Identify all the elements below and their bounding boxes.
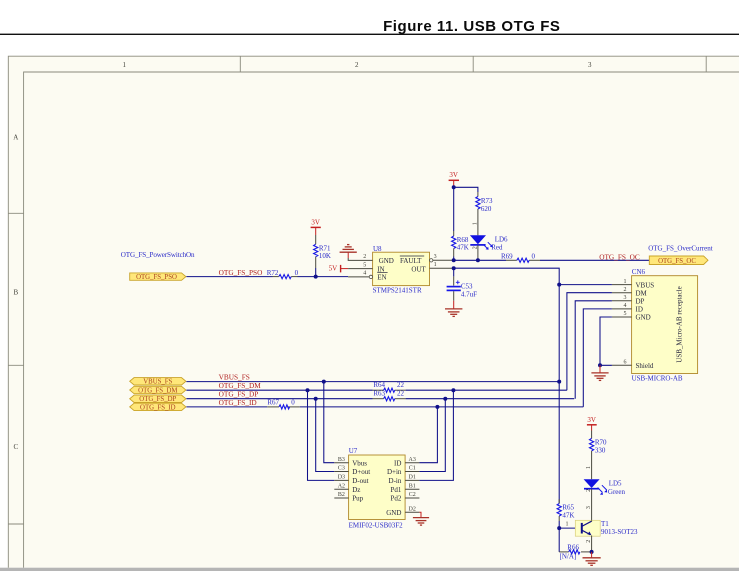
- wire VBUS_FS: [186, 381, 559, 383]
- wire VBUS to CN6 pin1: [559, 284, 612, 286]
- U8 pin 5 IN wire and 5V power: [329, 262, 373, 272]
- svg-text:2: 2: [363, 254, 366, 260]
- junction VBUS/B3: [322, 380, 326, 384]
- svg-text:4: 4: [624, 303, 627, 309]
- svg-text:VBUS_FS: VBUS_FS: [219, 372, 250, 381]
- U8 pin 2 GND wire and ground: [340, 245, 373, 261]
- svg-text:C53: C53: [461, 283, 473, 291]
- net label OTG_FS_DP: [219, 390, 259, 399]
- junction DM/D3: [306, 388, 310, 392]
- svg-text:U7: U7: [349, 447, 358, 455]
- svg-text:2: 2: [355, 61, 359, 69]
- svg-text:A3: A3: [409, 457, 416, 463]
- svg-text:LD5: LD5: [609, 480, 622, 488]
- power 3V (R70): [587, 416, 597, 438]
- svg-text:B1: B1: [409, 483, 416, 489]
- svg-text:3V: 3V: [311, 218, 320, 226]
- svg-text:3V: 3V: [587, 416, 596, 424]
- svg-text:B: B: [13, 288, 18, 296]
- CN6 pin stubs: [612, 279, 632, 366]
- net label OTG_FS_DM: [219, 381, 262, 390]
- resistor R69: [501, 253, 536, 263]
- svg-text:DP: DP: [636, 298, 645, 306]
- wire CN6 GND to shield: [600, 317, 612, 365]
- svg-text:22: 22: [397, 389, 405, 397]
- ground C53: [445, 301, 462, 317]
- svg-text:OTG_FS_PSO: OTG_FS_PSO: [219, 268, 263, 277]
- svg-text:4.7uF: 4.7uF: [461, 291, 477, 299]
- junction DP/C3: [314, 397, 318, 401]
- svg-text:D2: D2: [409, 506, 416, 512]
- svg-text:R67: R67: [267, 399, 279, 407]
- wire DM to U7 D-out (D3): [308, 390, 335, 480]
- LED LD5: [584, 479, 626, 520]
- U8 pin 4 EN bubble: [348, 271, 372, 279]
- svg-text:Pd1: Pd1: [390, 486, 401, 494]
- svg-text:47K: 47K: [457, 244, 469, 252]
- svg-text:EMIF02-USB03F2: EMIF02-USB03F2: [349, 521, 404, 529]
- svg-text:D3: D3: [338, 475, 345, 481]
- resistor R65: [557, 499, 574, 528]
- svg-text:R63: R63: [373, 389, 385, 397]
- wire OTG_FS_ID: [186, 406, 583, 408]
- wire DM to U7 D-in (D1): [419, 390, 453, 480]
- svg-text:IN: IN: [377, 265, 384, 273]
- U7 left pin stubs: [334, 457, 348, 498]
- svg-text:0: 0: [295, 269, 299, 277]
- svg-text:2: 2: [586, 540, 592, 543]
- svg-text:1: 1: [472, 222, 478, 225]
- wire DP to U7 D+out (C3): [316, 399, 335, 472]
- svg-text:D-in: D-in: [389, 477, 402, 485]
- wire ID to U7 ID (A3): [419, 407, 437, 463]
- svg-text:R65: R65: [562, 503, 574, 511]
- svg-text:USB-MICRO-AB: USB-MICRO-AB: [632, 374, 683, 382]
- svg-text:D+in: D+in: [387, 468, 402, 476]
- wire ID to CN6 pin4: [583, 309, 612, 407]
- svg-text:5: 5: [363, 262, 366, 268]
- text OTG_FS_OverCurrent: [648, 244, 713, 252]
- svg-text:R73: R73: [481, 197, 493, 205]
- svg-text:1: 1: [624, 279, 627, 285]
- svg-text:0: 0: [532, 253, 536, 261]
- port OTG_FS_PSO: [130, 273, 186, 281]
- junction base node: [557, 526, 561, 530]
- svg-text:Dz: Dz: [352, 486, 360, 494]
- svg-text:C2: C2: [409, 492, 416, 498]
- svg-text:9013-SOT23: 9013-SOT23: [601, 528, 638, 536]
- bottom page edge band (decorative): [0, 568, 739, 571]
- svg-text:C3: C3: [338, 466, 345, 472]
- svg-text:10K: 10K: [319, 252, 331, 260]
- junction DP/C1: [443, 397, 447, 401]
- svg-text:B3: B3: [338, 457, 345, 463]
- svg-text:OTG_FS_OC: OTG_FS_OC: [599, 252, 640, 261]
- svg-text:330: 330: [595, 446, 606, 454]
- svg-text:D+out: D+out: [352, 468, 370, 476]
- ground U7 GND: [413, 512, 429, 525]
- svg-text:T1: T1: [601, 520, 609, 528]
- svg-text:5V: 5V: [329, 264, 338, 272]
- net label OTG_FS_OC: [599, 252, 640, 261]
- U8 pin 1 OUT stub: [430, 262, 454, 268]
- svg-text:3: 3: [586, 506, 592, 509]
- port OTG_FS_DP: [130, 395, 186, 403]
- svg-text:OTG_FS_ID: OTG_FS_ID: [219, 398, 257, 407]
- svg-text:GND: GND: [386, 509, 401, 517]
- svg-text:VBUS_FS: VBUS_FS: [143, 379, 172, 386]
- svg-text:Figure 11. USB OTG FS: Figure 11. USB OTG FS: [383, 18, 560, 35]
- svg-text:1: 1: [586, 466, 592, 469]
- svg-text:22: 22: [397, 381, 405, 389]
- svg-text:OTG_FS_OverCurrent: OTG_FS_OverCurrent: [648, 244, 713, 252]
- resistor R71: [314, 244, 331, 276]
- svg-text:D-out: D-out: [352, 477, 368, 485]
- svg-text:R64: R64: [373, 381, 385, 389]
- junction 3V node: [452, 185, 456, 189]
- resistor R66 [N/A]: [559, 528, 591, 561]
- text OTG_FS_PowerSwitchOn: [121, 251, 195, 259]
- resistor R73: [472, 197, 493, 236]
- resistor R67: [267, 399, 295, 409]
- wire base node to T1: [559, 521, 582, 528]
- svg-text:R68: R68: [457, 236, 469, 244]
- wire OTG_FS_PSO to EN: [186, 276, 348, 278]
- svg-text:OUT: OUT: [411, 265, 426, 273]
- wire OTG_FS_DP: [186, 398, 574, 400]
- svg-text:1: 1: [566, 521, 569, 527]
- svg-text:Shield: Shield: [636, 362, 654, 370]
- svg-text:Pd2: Pd2: [390, 495, 401, 503]
- svg-text:Pup: Pup: [352, 495, 363, 503]
- svg-text:LD6: LD6: [495, 236, 508, 244]
- svg-text:R70: R70: [595, 438, 607, 446]
- svg-text:R66: R66: [567, 543, 579, 551]
- net label OTG_FS_ID: [219, 398, 257, 407]
- svg-text:3: 3: [588, 61, 592, 69]
- U7 right pin stubs: [405, 457, 419, 513]
- svg-text:Red: Red: [491, 244, 503, 252]
- svg-text:CN6: CN6: [632, 268, 646, 276]
- wire DP to CN6 pin3: [575, 301, 612, 399]
- port OTG_FS_ID: [130, 403, 186, 411]
- svg-text:R72: R72: [267, 269, 279, 277]
- wire VBUS to U7 Vbus (B3): [324, 382, 335, 463]
- power 3V (R71): [311, 218, 321, 244]
- port OTG_FS_OC: [649, 256, 708, 265]
- svg-text:GND: GND: [636, 314, 651, 322]
- resistor R64: [373, 381, 404, 393]
- svg-text:FAULT: FAULT: [400, 257, 422, 265]
- resistor R68: [452, 187, 469, 260]
- power 3V (R73/R68): [449, 171, 459, 187]
- U8 pin 3 FAULT bubble and stub: [430, 254, 454, 262]
- port VBUS_FS: [130, 378, 186, 386]
- svg-text:B2: B2: [338, 492, 345, 498]
- svg-text:3: 3: [624, 295, 627, 301]
- junction ID/A3: [435, 405, 439, 409]
- svg-text:47K: 47K: [562, 511, 574, 519]
- junction OUT/C53: [452, 266, 456, 270]
- junction emitter node: [590, 550, 594, 554]
- wire OTG_FS_DM: [186, 389, 567, 391]
- capacitor C53: [447, 268, 478, 301]
- svg-text:1: 1: [434, 262, 437, 268]
- LED LD6: [470, 235, 508, 260]
- resistor R72: [267, 269, 299, 279]
- svg-text:A2: A2: [338, 483, 345, 489]
- junction FAULT/R68: [452, 258, 456, 262]
- junction shield/gnd: [598, 363, 602, 367]
- svg-text:3V: 3V: [449, 171, 458, 179]
- svg-text:Green: Green: [608, 488, 626, 496]
- resistor R70: [586, 438, 607, 479]
- connector CN6 USB-MICRO-AB: [632, 268, 698, 382]
- svg-text:C1: C1: [409, 466, 416, 472]
- svg-text:620: 620: [481, 205, 492, 213]
- wire 3V node to R73 branch: [454, 187, 478, 196]
- svg-text:0: 0: [291, 399, 295, 407]
- wire DM to CN6 pin2: [567, 293, 612, 391]
- svg-text:4: 4: [363, 271, 366, 277]
- junction VBUS/column: [557, 380, 561, 384]
- svg-text:5: 5: [624, 311, 627, 317]
- wire DP to U7 D+in (C1): [419, 399, 445, 472]
- svg-text:OTG_FS_PowerSwitchOn: OTG_FS_PowerSwitchOn: [121, 251, 195, 259]
- svg-text:VBUS: VBUS: [636, 281, 655, 289]
- svg-text:EN: EN: [377, 274, 386, 282]
- svg-text:R71: R71: [319, 244, 331, 252]
- svg-text:GND: GND: [379, 257, 394, 265]
- svg-text:OTG_FS_DM: OTG_FS_DM: [138, 387, 177, 394]
- svg-text:A: A: [13, 134, 18, 142]
- figure title: [0, 18, 739, 35]
- svg-text:USB_Micro-AB receptacle: USB_Micro-AB receptacle: [675, 286, 683, 362]
- ground T1 emitter: [583, 552, 601, 565]
- junction VBUS pin1: [557, 283, 561, 287]
- junction FAULT/LED: [476, 258, 480, 262]
- svg-text:U8: U8: [373, 245, 382, 253]
- IC U8 STMPS2141STR: [373, 245, 430, 295]
- svg-text:Vbus: Vbus: [352, 459, 367, 467]
- net label VBUS_FS: [219, 372, 250, 381]
- IC U7 EMIF02-USB03F2: [349, 447, 406, 530]
- svg-text:ID: ID: [636, 306, 643, 314]
- net label OTG_FS_PSO: [219, 268, 263, 277]
- svg-text:STMPS2141STR: STMPS2141STR: [373, 286, 422, 294]
- svg-text:OTG_FS_PSO: OTG_FS_PSO: [136, 274, 177, 281]
- junction DM/D1: [451, 388, 455, 392]
- svg-text:D1: D1: [409, 475, 416, 481]
- port OTG_FS_DM: [130, 386, 186, 394]
- svg-text:6: 6: [624, 360, 627, 366]
- ground CN6 shield: [591, 365, 608, 380]
- svg-text:OTG_FS_DP: OTG_FS_DP: [139, 396, 176, 403]
- svg-text:OTG_FS_ID: OTG_FS_ID: [140, 404, 176, 411]
- svg-text:C: C: [13, 443, 18, 451]
- svg-text:[N/A]: [N/A]: [560, 553, 577, 561]
- junction PSO/R71: [314, 275, 318, 279]
- svg-text:2: 2: [624, 287, 627, 293]
- svg-text:ID: ID: [394, 459, 401, 467]
- svg-text:OTG_FS_OC: OTG_FS_OC: [658, 258, 696, 265]
- wire FAULT net: [454, 259, 650, 261]
- transistor T1 9013-SOT23: [575, 520, 638, 552]
- svg-text:DM: DM: [636, 289, 648, 297]
- resistor R63: [373, 389, 404, 401]
- svg-text:R69: R69: [501, 253, 513, 261]
- svg-text:1: 1: [122, 61, 126, 69]
- wire OUT to VBUS column: [454, 268, 560, 503]
- svg-text:3: 3: [434, 254, 437, 260]
